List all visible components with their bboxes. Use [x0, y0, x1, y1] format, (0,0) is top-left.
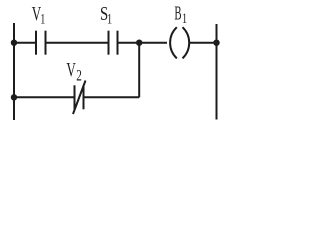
label B1 [174, 3, 187, 27]
label V1 [32, 3, 46, 27]
junction dot: branch merge on top rung [136, 40, 142, 46]
svg-text:V: V [66, 59, 76, 81]
coil B1 [170, 27, 189, 58]
wire: coil B1 to right rail [189, 42, 216, 44]
svg-text:1: 1 [182, 11, 187, 27]
wire: S1 to coil B1 (through branch junction) [118, 42, 168, 44]
right power rail [216, 24, 218, 120]
label S1 [100, 3, 112, 27]
wire: top rung, left rail to V1 [14, 42, 36, 44]
junction dot: left rail / top rung [11, 40, 17, 46]
contact S1 [109, 31, 118, 55]
left power rail [13, 23, 15, 120]
wire: branch vertical (bottom rung up to top rung) [138, 43, 140, 98]
wire: bottom rung, left rail to V2 [14, 96, 75, 98]
junction dot: left rail / bottom rung [11, 94, 17, 100]
contact V1 [36, 31, 46, 55]
svg-text:1: 1 [40, 11, 45, 27]
svg-text:2: 2 [76, 68, 82, 85]
svg-text:B: B [174, 3, 181, 25]
junction dot: right rail / top rung [213, 40, 219, 46]
svg-text:1: 1 [107, 11, 112, 27]
contact V2 (normally closed) [73, 81, 86, 115]
wire: V2 to branch vertical [84, 96, 140, 98]
wire: V1 to S1 [46, 42, 109, 44]
label V2 [66, 59, 81, 85]
